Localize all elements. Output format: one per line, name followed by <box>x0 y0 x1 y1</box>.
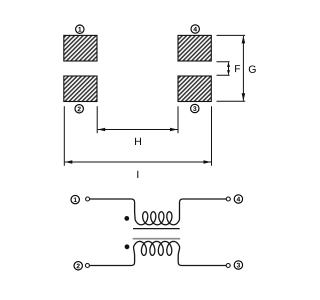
label I <box>136 171 139 178</box>
extension line below pad 3 right edge <box>211 106 213 166</box>
polarity dot L2 <box>125 244 130 249</box>
terminal pin 4 <box>226 197 230 201</box>
label F <box>235 65 240 72</box>
pin label 4 (pad) <box>191 25 199 33</box>
dimension G arrow line <box>242 36 244 101</box>
dimension I line <box>65 161 211 163</box>
pin label 2 (schematic) <box>74 262 82 270</box>
pin label 4 (schematic) <box>234 195 242 203</box>
label H <box>135 138 141 145</box>
winding L2 (pins 2-3) wire and coil <box>90 241 226 265</box>
pin label 1 (pad) <box>76 25 84 33</box>
pad 4 (top-right) <box>178 35 211 61</box>
polarity dot L1 <box>124 216 129 221</box>
terminal pin 2 <box>85 264 89 268</box>
dimension G extension lines <box>217 35 246 101</box>
pin label 1 (schematic) <box>71 195 79 203</box>
extension line below pad 2 right edge <box>96 106 98 133</box>
dimension H line <box>98 129 178 131</box>
terminal pin 3 <box>226 264 230 268</box>
pad 1 (top-left) <box>64 35 97 61</box>
terminal pin 1 <box>86 197 90 201</box>
pin label 3 (schematic) <box>234 261 242 269</box>
label G <box>249 65 256 72</box>
extension line below pad 3 left edge <box>177 106 179 133</box>
pad 3 (bottom-right) <box>178 76 211 102</box>
pin label 2 (pad) <box>75 105 83 113</box>
pad 2 (bottom-left) <box>64 76 97 102</box>
dimension F arrow line <box>228 62 230 75</box>
extension line below pad 2 left edge <box>63 106 65 166</box>
winding L1 (pins 1-4) wire and coil <box>90 199 226 225</box>
dimension F extension lines <box>217 62 230 75</box>
pin label 3 (pad) <box>191 104 199 112</box>
core line 2 <box>133 238 181 240</box>
core line 1 <box>133 228 180 230</box>
